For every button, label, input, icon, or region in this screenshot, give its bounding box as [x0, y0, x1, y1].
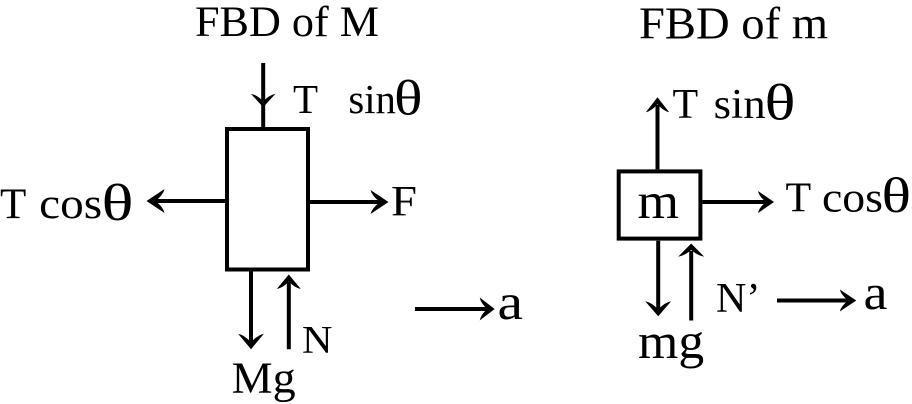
svg-text:θ: θ: [765, 76, 796, 132]
svg-text:a: a: [864, 264, 888, 320]
svg-text:θ: θ: [394, 70, 423, 126]
svg-text:sin: sin: [714, 82, 766, 128]
svg-text:θ: θ: [102, 175, 134, 232]
svg-text:cos: cos: [39, 181, 102, 228]
svg-text:T: T: [673, 82, 699, 128]
svg-text:T: T: [0, 181, 26, 228]
svg-text:N: N: [302, 319, 333, 362]
svg-text:Mg: Mg: [232, 354, 296, 403]
svg-text:FBD of m: FBD of m: [639, 0, 828, 49]
svg-text:cos: cos: [822, 175, 883, 221]
svg-text:sin: sin: [348, 76, 396, 122]
svg-text:F: F: [391, 179, 417, 226]
svg-text:θ: θ: [882, 167, 912, 223]
svg-text:N’: N’: [716, 276, 760, 322]
svg-text:T: T: [786, 175, 812, 221]
svg-text:FBD of M: FBD of M: [195, 0, 379, 46]
svg-text:a: a: [498, 275, 524, 331]
svg-text:m: m: [638, 174, 680, 230]
svg-text:T: T: [293, 76, 318, 122]
svg-text:mg: mg: [638, 313, 704, 369]
